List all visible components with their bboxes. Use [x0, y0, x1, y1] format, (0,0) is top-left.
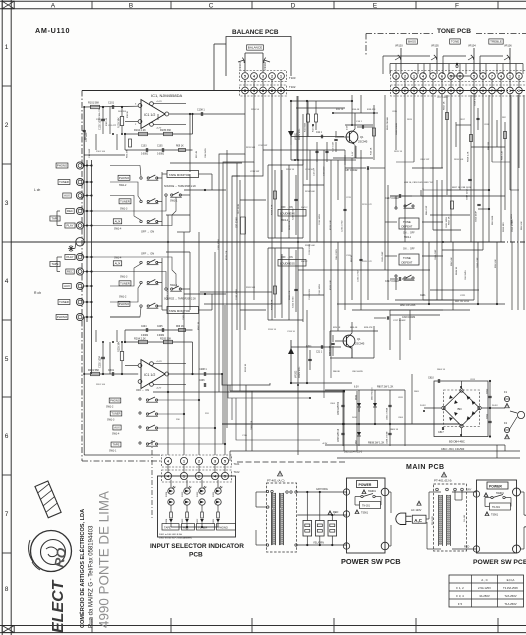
wire selector output bus R [157, 262, 162, 264]
svg-text:4: 4 [500, 89, 502, 93]
svg-text:TS901: TS901 [491, 514, 499, 517]
svg-text:R104 2.2K: R104 2.2K [134, 129, 146, 132]
svg-text:TUNER: TUNER [111, 411, 120, 415]
wire tone defeat feeds [385, 221, 397, 223]
svg-text:TAPE: TAPE [113, 442, 120, 446]
svg-text:REC: REC [67, 209, 73, 213]
svg-text:-6.3V: -6.3V [322, 443, 328, 445]
power transformer PT-401 AC secondary winding [279, 493, 283, 545]
dealer stamp arc fragment [29, 540, 33, 562]
capacitor C804 label column [341, 404, 344, 406]
wire selector bus joins L [166, 214, 190, 216]
capacitor C105 0.0082 [161, 148, 163, 152]
power switch SW901 AC [362, 490, 366, 494]
svg-text:PHONO: PHONO [57, 164, 68, 168]
svg-text:2: 2 [5, 122, 9, 129]
svg-text:TN-301: TN-301 [492, 506, 501, 509]
extra wire steps lower center [236, 398, 320, 440]
svg-text:C21 1: C21 1 [316, 352, 323, 354]
svg-text:C201: C201 [108, 369, 115, 372]
input selector pcb outline [158, 476, 236, 537]
wire rec jack L long run [92, 196, 167, 211]
svg-text:VR106: VR106 [504, 45, 512, 48]
svg-text:T102: T102 [234, 470, 240, 474]
svg-text:R88 10K: R88 10K [488, 141, 490, 150]
input jack labels L channel [56, 163, 68, 168]
svg-text:SW2-2: SW2-2 [281, 220, 289, 222]
svg-text:C221: C221 [460, 295, 466, 297]
transistor Q2 2SC945 [343, 335, 355, 347]
wire vertical pair right of selector [245, 385, 247, 451]
svg-text:R09 1K: R09 1K [176, 146, 184, 148]
svg-text:C214 10/16: C214 10/16 [319, 213, 321, 225]
svg-text:5: 5 [224, 459, 226, 463]
wire led column feeds [170, 480, 172, 487]
svg-text:SW1-3: SW1-3 [120, 276, 128, 279]
svg-text:SW1-3: SW1-3 [120, 208, 128, 211]
svg-text:+5.2V: +5.2V [156, 101, 162, 103]
wire R909 line L [184, 189, 226, 191]
wire right horizontals upper [412, 167, 443, 169]
connector pin 3 AC [343, 489, 349, 495]
op-amp R negative supply pin [150, 383, 154, 387]
led indicator column D303 [184, 488, 190, 494]
resistor R103 39K vertical [120, 117, 123, 126]
svg-text:C314 10/16: C314 10/16 [319, 283, 321, 295]
svg-text:C215: C215 [346, 197, 352, 199]
wire lower right horizontals [385, 269, 430, 271]
svg-text:4: 4 [500, 74, 502, 78]
svg-text:TONE: TONE [403, 220, 411, 224]
svg-text:POWER SW PCB: POWER SW PCB [341, 557, 401, 566]
connector pin 3 EN [473, 491, 479, 497]
svg-text:BASS: BASS [408, 40, 416, 44]
resistor R817 1K upper [446, 113, 449, 120]
svg-text:C210 10/16: C210 10/16 [236, 288, 238, 300]
bass control label [407, 39, 418, 44]
resistor R12 1K vertical [315, 114, 318, 122]
svg-text:2: 2 [518, 74, 520, 78]
surge resistor TS901 AC [360, 502, 381, 509]
svg-text:TAPE MONITOR: TAPE MONITOR [169, 309, 190, 313]
wire main vol R output steps [222, 374, 270, 385]
power label EN [487, 482, 508, 489]
svg-text:AUX: AUX [115, 261, 121, 265]
svg-text:R817: R817 [460, 119, 466, 121]
svg-text:5: 5 [473, 74, 475, 78]
wire tone defeat terminals L [395, 207, 397, 209]
capacitor C102b 100P left [83, 120, 85, 142]
wire long vertical x237 [236, 163, 238, 330]
selector lamp label TAPE [162, 524, 179, 531]
svg-text:C905 10: C905 10 [183, 311, 185, 320]
svg-text:C87 22/68: C87 22/68 [237, 217, 239, 228]
svg-text:C217 0.0082: C217 0.0082 [393, 320, 406, 322]
warning triangle filter [328, 511, 332, 515]
svg-text:0.0082: 0.0082 [157, 335, 165, 337]
wire Q1 bias rail [333, 112, 378, 114]
dealer stamp inner circle [41, 540, 66, 565]
wire bridge vertical leads [461, 381, 463, 389]
svg-text:C804: C804 [330, 403, 336, 405]
svg-text:R316 1K: R316 1K [268, 329, 277, 331]
wire long vertical x227 [226, 150, 228, 428]
function switch SW1-4 AUX bottom [113, 425, 121, 430]
input jack labels R channel [65, 255, 75, 260]
svg-text:GRY/ORG: GRY/ORG [316, 488, 328, 491]
svg-text:C12 47P: C12 47P [314, 167, 316, 176]
wire transformer AC right lead bottom [297, 544, 347, 546]
diode D812 lower [358, 424, 360, 446]
op-amp L positive supply pin [150, 102, 154, 106]
svg-text:Rua da MAIRZ G - Tel/Fax 05819: Rua da MAIRZ G - Tel/Fax 058194403 [89, 525, 95, 628]
wire right area lower verticals [428, 242, 430, 304]
svg-text:7: 7 [432, 89, 434, 93]
wire phono R to preamp [83, 317, 85, 374]
svg-text:3: 3 [262, 74, 264, 78]
svg-text:5: 5 [450, 89, 452, 93]
svg-text:R804 1K: R804 1K [437, 369, 446, 371]
op-amp IC1 2/2 R [141, 360, 165, 389]
tape monitor label R [167, 307, 199, 314]
svg-text:C818 0.0082: C818 0.0082 [475, 93, 477, 106]
wire R tone long y310b [352, 309, 470, 311]
svg-text:R907 1K: R907 1K [198, 321, 200, 330]
op-amp R output pin [165, 372, 169, 376]
svg-text:C88 470/25: C88 470/25 [336, 248, 338, 260]
svg-text:SOURCE ↔ TAPE R909 2.2K: SOURCE ↔ TAPE R909 2.2K [164, 185, 196, 188]
svg-text:R ch: R ch [34, 291, 41, 295]
wire IC1b output to right [169, 373, 222, 375]
svg-text:3: 3 [5, 200, 9, 207]
potentiometer VR201 MAIN VOL [290, 101, 292, 145]
dealer stamp logo squiggle [46, 547, 58, 557]
wire tone defeat verticals [387, 185, 389, 300]
svg-text:R301: R301 [213, 518, 215, 524]
svg-text:PLAY: PLAY [67, 255, 74, 259]
svg-text:R817 1K: R817 1K [444, 101, 446, 110]
svg-text:GRY: GRY [466, 489, 472, 492]
svg-text:R19 1K: R19 1K [371, 147, 373, 155]
wire center steps down [228, 385, 310, 398]
wire IC1a feedback top [125, 133, 193, 135]
capacitor C205 0.0082 [161, 328, 163, 332]
svg-text:R908 2.2K: R908 2.2K [167, 290, 169, 300]
wire right bus y270 [298, 269, 385, 271]
bridge vertex terminals [460, 389, 463, 392]
wire right vertical rails upper [384, 95, 386, 270]
svg-text:AC 120V: AC 120V [411, 508, 422, 512]
tape monitor switch SW1-1 R [165, 288, 167, 290]
wire R88 vertical R [83, 374, 85, 455]
svg-text:C03 47P: C03 47P [108, 125, 117, 127]
wire jack bus lower end [92, 373, 111, 375]
wire R tone long y304 [337, 303, 505, 305]
capacitor C805 47/50 [388, 404, 391, 406]
wire play jack L long run [92, 197, 177, 225]
wire L signal line y163 [170, 162, 242, 164]
resistor R104 2.2K feedback [139, 132, 148, 135]
resistor R201 56K [91, 372, 100, 375]
tone defeat switch L [404, 205, 406, 207]
wire preamp enclosure dash-dot bottom edge [82, 460, 162, 462]
svg-text:AUX: AUX [64, 284, 70, 288]
svg-text:2: 2 [404, 89, 406, 93]
svg-text:R06 47K: R06 47K [127, 149, 129, 158]
svg-text:D303: D303 [182, 491, 184, 497]
svg-text:PHONO: PHONO [110, 398, 120, 402]
svg-text:TAPE MONITOR: TAPE MONITOR [169, 173, 190, 177]
svg-text:SW901: SW901 [496, 492, 505, 495]
svg-text:R220 1K: R220 1K [245, 363, 247, 372]
svg-text:C813: C813 [470, 379, 476, 381]
wire selector pcb left lead [151, 440, 153, 520]
capacitor C811 right of bridge [488, 420, 491, 422]
svg-text:REC: REC [67, 270, 73, 274]
capacitor C808 lower [389, 424, 391, 446]
svg-text:R819 2W 680: R819 2W 680 [387, 116, 389, 130]
svg-text:R313 2.2K: R313 2.2K [330, 280, 332, 290]
wire main horizontal bus y=242 [11, 241, 500, 243]
svg-text:R28 47K: R28 47K [364, 327, 373, 329]
svg-text:C210 33P: C210 33P [258, 145, 268, 147]
op-amp R input pins [138, 364, 142, 368]
wire bus y451 [230, 450, 520, 452]
svg-text:SW2-2: SW2-2 [301, 261, 308, 263]
svg-text:7: 7 [491, 89, 493, 93]
svg-text:C: C [209, 2, 214, 9]
svg-text:A,C: A,C [414, 518, 422, 523]
svg-text:R805: R805 [414, 391, 420, 393]
svg-text:TUNER: TUNER [59, 300, 69, 304]
svg-text:YEL/GRN: YEL/GRN [313, 542, 324, 545]
line filter capacitor block 2 [316, 521, 325, 537]
svg-text:C205: C205 [157, 326, 163, 328]
wire transformer AC left leads [256, 491, 266, 493]
wire right network joins [456, 124, 471, 126]
wire center drops to selector [229, 384, 231, 386]
function switch SW1-1 TAPE bottom [111, 442, 121, 447]
svg-text:R211 10K: R211 10K [246, 147, 256, 149]
diode D810 [357, 403, 361, 407]
resistor R203 39K vertical [120, 352, 123, 361]
tone defeat label L [399, 218, 419, 229]
transformer AC terminals [266, 490, 268, 492]
svg-text:R82 1W 10/16: R82 1W 10/16 [455, 301, 470, 303]
potentiometer VR102 [262, 53, 264, 72]
power supply mid rail join [342, 423, 344, 425]
led indicator column D301 [215, 488, 221, 494]
tone ground symbol [456, 63, 458, 65]
warning triangle PT-401 EN [441, 472, 446, 477]
svg-text:SG-401: SG-401 [464, 514, 466, 522]
input jacks R channel [76, 253, 83, 260]
wire preamp enclosure dash-dot left edge [81, 91, 83, 462]
svg-text:LOUDNESS: LOUDNESS [280, 212, 295, 216]
svg-text:C811: C811 [487, 413, 489, 419]
svg-text:AM-U110: AM-U110 [35, 26, 70, 35]
resistor R88 2.2K right [504, 132, 507, 139]
wire led common bus [171, 526, 218, 528]
svg-text:R210 5K: R210 5K [251, 109, 260, 111]
svg-text:8: 8 [5, 586, 9, 593]
svg-text:R25 1K: R25 1K [333, 327, 341, 329]
wire center column feeds D [296, 96, 298, 160]
svg-text:4: 4 [5, 278, 9, 285]
border frame inner left line [10, 0, 12, 635]
svg-text:PT-401 (A,C): PT-401 (A,C) [267, 479, 285, 483]
corner register mark bottom-left [2, 626, 14, 633]
svg-text:TS901: TS901 [361, 512, 369, 515]
svg-text:R07 4N: R07 4N [196, 150, 198, 158]
wire selector column feeds [167, 215, 169, 455]
svg-text:6: 6 [482, 89, 484, 93]
svg-text:R316 8.2K: R316 8.2K [272, 299, 274, 310]
svg-text:R18 47K: R18 47K [367, 109, 376, 111]
wire bus y391 junction [343, 390, 345, 392]
svg-text:VR105: VR105 [431, 45, 439, 48]
svg-text:TONE: TONE [451, 40, 459, 44]
svg-text:1: 1 [280, 74, 282, 78]
resistor R205 33K feedback [164, 340, 173, 343]
svg-text:R821 1W 220K: R821 1W 220K [400, 305, 416, 307]
svg-text:D304: D304 [166, 491, 168, 497]
resistor R109 1K [179, 149, 186, 152]
svg-text:BALANCE: BALANCE [248, 46, 262, 50]
selector switch SW1-4 AUX L [113, 219, 121, 224]
svg-text:SW2-2: SW2-2 [301, 207, 308, 209]
svg-text:R03 39K: R03 39K [118, 111, 127, 113]
svg-text:4: 4 [253, 74, 255, 78]
svg-text:R819 680: R819 680 [503, 222, 505, 232]
svg-text:2SC945: 2SC945 [358, 140, 368, 144]
wire R209 line R [184, 293, 226, 295]
svg-text:Q1: Q1 [357, 337, 361, 341]
svg-text:C820 10/16: C820 10/16 [511, 213, 513, 225]
power transformer EN primary winding [439, 495, 443, 545]
capacitor C315 4.7/50 [359, 258, 362, 260]
wire right edge stubs [496, 445, 498, 458]
svg-text:C820 470P: C820 470P [477, 257, 479, 268]
svg-text:C804 225/50: C804 225/50 [338, 401, 340, 415]
svg-text:SW1-2: SW1-2 [119, 184, 127, 187]
svg-text:SW2-1: SW2-1 [404, 237, 412, 239]
connector T105 pin row [391, 71, 526, 82]
wire function matrix crossbar 3 [157, 413, 185, 415]
wire balance pin columns [244, 79, 246, 87]
svg-text:R205 33K: R205 33K [160, 338, 171, 341]
svg-text:BALANCE PCB: BALANCE PCB [232, 29, 279, 36]
wire transformer EN right lead top [452, 491, 476, 493]
svg-text:3: 3 [395, 89, 397, 93]
resistor R101 56K [91, 105, 100, 108]
capacitor C87 33/68 boxed [241, 217, 246, 234]
wire R signal line y378 [170, 377, 230, 379]
svg-text:2.5A 125V: 2.5A 125V [478, 586, 491, 590]
svg-text:C317 0.0022: C317 0.0022 [385, 280, 399, 283]
power transformer PT-401 AC outline [267, 483, 297, 552]
svg-text:VR101: VR101 [238, 62, 242, 70]
svg-text:F 1, 2: F 1, 2 [456, 586, 464, 590]
wire balance output column 2 [200, 94, 272, 292]
svg-text:C206: C206 [199, 380, 205, 382]
svg-text:R807 2W 1.2K: R807 2W 1.2K [377, 386, 394, 389]
power label AC [357, 481, 378, 488]
svg-text:OFF ← ON: OFF ← ON [136, 388, 149, 392]
wire lower right join y310 [390, 309, 443, 311]
svg-text:TUNER: TUNER [198, 526, 207, 530]
svg-text:R15 1K: R15 1K [336, 109, 344, 111]
wire IC1a output to right [169, 113, 245, 115]
wire bus y445 [325, 444, 505, 446]
diode D811 [373, 403, 377, 407]
svg-text:R80 8K: R80 8K [333, 371, 341, 373]
svg-text:-5.2V: -5.2V [156, 388, 162, 390]
wire Q2 rails [330, 330, 378, 332]
wire selector pin columns [167, 465, 169, 473]
wire tone network stairs L [396, 161, 414, 163]
svg-text:T103: T103 [289, 76, 296, 80]
capacitor C215 4.7/50 [343, 208, 346, 210]
svg-text:7: 7 [5, 511, 9, 518]
svg-text:R88 2.2K: R88 2.2K [502, 150, 504, 160]
selector lamp label AUX [182, 524, 195, 531]
svg-text:R312 47K: R312 47K [289, 290, 291, 300]
svg-text:R101 56K: R101 56K [88, 102, 99, 105]
connector T103 pin row [240, 71, 287, 82]
capacitor C108 coupling [200, 112, 202, 116]
svg-text:POWER: POWER [489, 485, 502, 489]
svg-text:R201 56K: R201 56K [88, 369, 99, 372]
wire tone outputs drop [395, 94, 397, 150]
warning triangle PT-401 AC [277, 471, 282, 476]
svg-text:2: 2 [404, 74, 406, 78]
svg-text:C10 100P: C10 100P [89, 148, 91, 158]
svg-text:R105 33K: R105 33K [160, 129, 171, 132]
svg-text:C87 0.0022: C87 0.0022 [345, 169, 358, 172]
wire plug to transformer EN top [426, 518, 429, 520]
svg-text:7: 7 [491, 74, 493, 78]
svg-text:C11 1: C11 1 [316, 132, 323, 134]
svg-text:F 3, 4: F 3, 4 [456, 594, 464, 598]
wire right-top rail [296, 107, 345, 109]
svg-text:OFF → ON: OFF → ON [141, 230, 154, 234]
wire function matrix crossbar 4 [157, 427, 216, 429]
power supply top rail [325, 389, 405, 391]
svg-text:6: 6 [482, 74, 484, 78]
wire base line R y347 [291, 346, 341, 348]
wire L tone long y196 [390, 195, 505, 197]
svg-text:2: 2 [271, 74, 273, 78]
left area vertical part C106 1000P [84, 159, 91, 161]
capacitor C201 [111, 372, 113, 376]
power sw pcb EN outline [477, 480, 517, 553]
connector pin 2 EN [473, 546, 479, 552]
capacitor C21 1 [320, 345, 322, 349]
svg-text:R213 2.2K: R213 2.2K [330, 220, 332, 230]
resistor R316 vertical R [274, 286, 277, 294]
svg-text:T102: T102 [289, 85, 296, 89]
capacitor C23 0.047 [331, 342, 334, 344]
wire psu rail x405 [404, 390, 406, 446]
wire balance output column 1 [204, 94, 281, 304]
line filter capacitor block 3 [328, 521, 337, 537]
capacitor C819 450P [477, 203, 480, 205]
corner register mark top-left [2, 1, 14, 9]
svg-text:R83 3.3K: R83 3.3K [521, 221, 523, 230]
svg-text:C106 47P: C106 47P [99, 108, 101, 118]
resistor R304 [170, 505, 172, 512]
